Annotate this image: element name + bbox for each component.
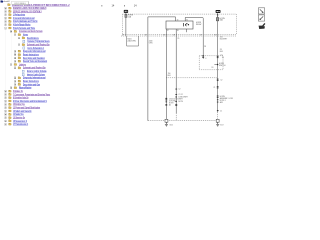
horn switch connector xyxy=(202,55,204,56)
battery B+ feed right xyxy=(216,10,221,13)
svg-text:G107: G107 xyxy=(220,124,224,126)
wire V4 down xyxy=(217,21,219,112)
dashed crossover wire xyxy=(166,77,217,79)
pan hand icon xyxy=(259,23,266,29)
svg-text:28: 28 xyxy=(204,46,206,48)
svg-text:14: 14 xyxy=(134,3,137,7)
svg-text:C1: C1 xyxy=(220,111,222,113)
horn relay box xyxy=(166,21,193,29)
band pin ticks xyxy=(145,35,216,36)
svg-text:BLK: BLK xyxy=(168,75,172,77)
svg-text:10 BLK/WHT: 10 BLK/WHT xyxy=(178,97,188,99)
svg-text:S1: S1 xyxy=(211,67,213,69)
relay pin stub xyxy=(186,29,188,32)
underhood fuse block dashed box xyxy=(122,14,236,34)
svg-text:30: 30 xyxy=(177,19,179,21)
ground splice square S2 left xyxy=(165,119,168,122)
app header text xyxy=(4,0,10,2)
ground splice square S3 right xyxy=(216,119,219,122)
wire fuse F1 down xyxy=(125,17,127,36)
svg-text:C1: C1 xyxy=(213,87,215,89)
svg-text:86: 86 xyxy=(177,30,179,32)
tree guide line L1 xyxy=(5,10,7,123)
svg-text:ORN: ORN xyxy=(149,42,153,44)
wire V3 relay pin86 xyxy=(175,29,177,113)
zoom-out icon xyxy=(258,15,264,21)
svg-text:2440 ORN: 2440 ORN xyxy=(127,41,136,43)
page indicator mark 2 xyxy=(123,5,126,7)
connector chain on V3 xyxy=(175,88,177,91)
harness boundary dashed line xyxy=(121,35,237,37)
connector on V4 at box top xyxy=(217,55,219,58)
connector flag on V4 bottom xyxy=(217,110,219,111)
inline connector right xyxy=(217,14,219,16)
svg-text:A26: A26 xyxy=(220,101,223,104)
page indicator mark 1 xyxy=(101,5,104,7)
connector pair on V4 y86 xyxy=(217,85,219,88)
svg-text:A2: A2 xyxy=(169,103,171,106)
svg-text:BLK/WHT: BLK/WHT xyxy=(220,38,228,40)
zoom-in icon xyxy=(258,8,264,14)
wire V2 relay pin87 to horn xyxy=(165,29,167,119)
wire battery to fuse F1 xyxy=(125,13,127,15)
svg-text:85: 85 xyxy=(186,19,188,21)
tooltip xyxy=(12,1,29,5)
component box A11 below band xyxy=(127,36,139,46)
tree guide line L2 xyxy=(10,30,12,63)
connector cluster on V2 xyxy=(165,98,167,99)
svg-text:8: 8 xyxy=(205,58,206,60)
ground G106 xyxy=(165,122,168,126)
svg-text:C2: C2 xyxy=(220,80,222,82)
svg-text:14: 14 xyxy=(112,3,115,7)
battery B+ feed left xyxy=(124,10,128,13)
connector pair on V4 y79 xyxy=(217,78,219,81)
ground G107 xyxy=(216,122,219,126)
main ground dashed rail xyxy=(148,120,216,122)
svg-text:RELAY: RELAY xyxy=(196,23,202,26)
svg-text:BLK: BLK xyxy=(220,51,224,53)
svg-text:87: 87 xyxy=(167,30,169,32)
relay contact glyphs xyxy=(184,23,189,26)
wire battery right down xyxy=(217,13,219,18)
app icon xyxy=(0,0,3,3)
svg-text:NOTE: NOTE xyxy=(178,101,183,103)
splice junction on V4 xyxy=(217,64,219,66)
horn assembly connectors on V4 xyxy=(217,95,219,98)
fuse F1 HORN xyxy=(125,15,127,18)
svg-text:G106: G106 xyxy=(169,124,173,126)
wire V1 relay pin30 feed xyxy=(148,17,176,121)
TOC tree xyxy=(0,3,105,6)
fuse F2 xyxy=(216,18,219,21)
horn switch dashed box xyxy=(199,56,223,70)
wire V5 relay pin85 to horn switch xyxy=(185,18,203,59)
svg-text:C2: C2 xyxy=(178,89,180,91)
svg-text:29: 29 xyxy=(177,38,179,40)
connector pin label C2 xyxy=(122,34,124,37)
svg-text:16: 16 xyxy=(222,57,224,59)
svg-text:SWITCH: SWITCH xyxy=(219,65,226,67)
